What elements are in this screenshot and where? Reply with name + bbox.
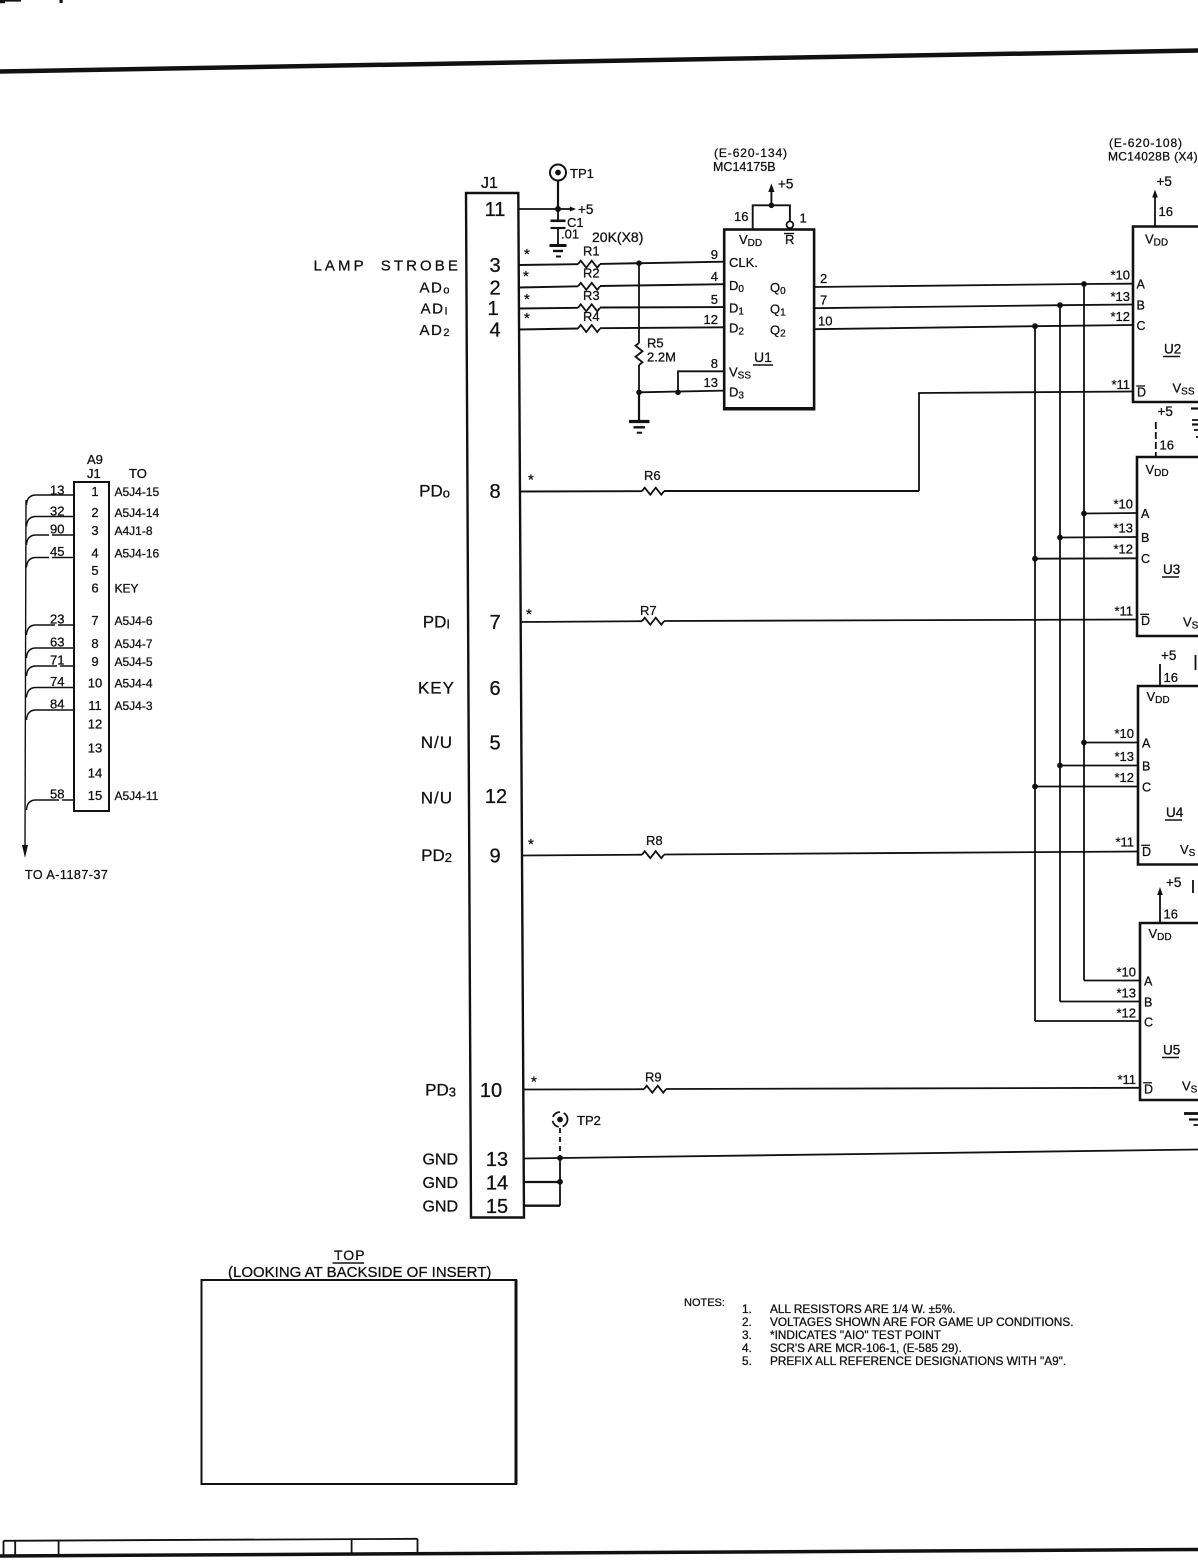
svg-text:(LOOKING AT BACKSIDE OF INSERT: (LOOKING AT BACKSIDE OF INSERT) bbox=[228, 1264, 491, 1281]
svg-text:3: 3 bbox=[489, 255, 500, 277]
svg-text:VSS: VSS bbox=[729, 365, 751, 382]
bus A vertical bbox=[1083, 284, 1085, 981]
wire bus C to U5 pin C bbox=[1035, 1020, 1140, 1022]
svg-text:2: 2 bbox=[820, 271, 827, 286]
svg-text:D2: D2 bbox=[729, 321, 744, 338]
svg-text:+5: +5 bbox=[1166, 875, 1181, 890]
svg-text:12: 12 bbox=[485, 786, 507, 808]
wire PD0 riser to U2 D pin bbox=[919, 392, 1133, 492]
hook wire row3 bbox=[27, 535, 75, 545]
junction R1/R5 on CLK net bbox=[636, 260, 642, 266]
svg-text:*13: *13 bbox=[1110, 289, 1130, 304]
svg-text:KEY: KEY bbox=[115, 582, 139, 596]
resistor R1 bbox=[519, 244, 724, 268]
connector J1 bbox=[466, 175, 524, 1218]
junction bus C / U4 bbox=[1032, 784, 1038, 790]
svg-text:71: 71 bbox=[50, 653, 64, 668]
wire bus B to U4 pin B bbox=[1060, 765, 1138, 767]
svg-text:A5J4-16: A5J4-16 bbox=[115, 547, 160, 561]
resistor R8 on PD2 net bbox=[522, 833, 1139, 858]
svg-text:J1: J1 bbox=[87, 466, 101, 481]
svg-text:*10: *10 bbox=[1110, 268, 1130, 283]
svg-text:11: 11 bbox=[88, 698, 102, 713]
svg-text:B: B bbox=[1141, 531, 1149, 545]
svg-text:1: 1 bbox=[800, 211, 807, 226]
svg-text:*: * bbox=[524, 310, 530, 327]
svg-text:R8: R8 bbox=[646, 833, 663, 848]
trunk arrowhead bbox=[22, 845, 28, 858]
resistor R9 on PD3 net bbox=[523, 1070, 1140, 1093]
svg-text:+5: +5 bbox=[1157, 174, 1172, 189]
svg-text:90: 90 bbox=[50, 522, 64, 537]
svg-text:PD2: PD2 bbox=[421, 846, 452, 865]
svg-text:VDD: VDD bbox=[1147, 689, 1170, 706]
svg-text:R6: R6 bbox=[644, 468, 661, 483]
IC U2 MC14028B bbox=[1110, 174, 1198, 402]
junction at TP1 bbox=[555, 206, 561, 212]
svg-text:GND: GND bbox=[422, 1199, 458, 1216]
svg-text:23: 23 bbox=[50, 612, 64, 627]
wire U1 Q1 to U2 pin B bbox=[814, 305, 1133, 309]
svg-text:*10: *10 bbox=[1113, 497, 1133, 512]
svg-text:VDD: VDD bbox=[739, 232, 762, 249]
svg-text:5: 5 bbox=[711, 292, 718, 307]
svg-text:7: 7 bbox=[91, 613, 98, 628]
svg-text:(E-620-134): (E-620-134) bbox=[714, 146, 788, 160]
svg-text:B: B bbox=[1137, 299, 1145, 313]
bus B vertical bbox=[1059, 305, 1061, 1001]
svg-text:A5J4-7: A5J4-7 bbox=[115, 637, 153, 651]
svg-text:U5: U5 bbox=[1163, 1043, 1180, 1058]
svg-text:*: * bbox=[528, 836, 534, 853]
hook wire row4 bbox=[27, 558, 75, 568]
svg-text:TP2: TP2 bbox=[577, 1113, 601, 1128]
hook wire row2 bbox=[27, 517, 75, 527]
svg-text:VS: VS bbox=[1182, 1079, 1198, 1096]
IC U1 MC14175B bbox=[713, 146, 815, 409]
svg-text:ADI: ADI bbox=[421, 301, 449, 318]
wire bus A to U3 pin A bbox=[1084, 512, 1137, 515]
svg-text:84: 84 bbox=[50, 697, 64, 712]
junction VSS/D3 bbox=[675, 390, 681, 396]
svg-text:10: 10 bbox=[88, 676, 102, 691]
ground below R5 bbox=[629, 392, 650, 432]
svg-text:TP1: TP1 bbox=[570, 166, 594, 181]
svg-text:*: * bbox=[524, 246, 530, 263]
resistor R5 bbox=[636, 263, 676, 392]
svg-text:R3: R3 bbox=[583, 288, 600, 303]
svg-text:A: A bbox=[1137, 278, 1146, 292]
test point TP1 bbox=[550, 165, 594, 208]
junction bus B / U4 bbox=[1057, 763, 1063, 769]
wire J1 pin 11 to +5 node bbox=[519, 208, 560, 210]
svg-text:A: A bbox=[1142, 737, 1151, 751]
IC U4 MC14028B bbox=[1114, 648, 1198, 865]
svg-text:D1: D1 bbox=[729, 301, 744, 318]
wire bus A to U5 pin A bbox=[1084, 980, 1140, 982]
svg-text:4: 4 bbox=[711, 269, 718, 284]
svg-text:*INDICATES "AIO" TEST POINT: *INDICATES "AIO" TEST POINT bbox=[770, 1328, 941, 1342]
svg-text:ALL RESISTORS ARE 1/4 W. ±5%.: ALL RESISTORS ARE 1/4 W. ±5%. bbox=[770, 1302, 955, 1316]
svg-text:*12: *12 bbox=[1116, 1006, 1136, 1021]
svg-text:6: 6 bbox=[489, 678, 500, 700]
wire bus B to U5 pin B bbox=[1060, 1001, 1140, 1003]
svg-text:+5: +5 bbox=[1161, 648, 1176, 663]
junction bus A / U4 bbox=[1081, 740, 1087, 746]
wire bus A to U4 pin A bbox=[1084, 742, 1138, 744]
notes block bbox=[684, 1297, 1073, 1368]
svg-text:12: 12 bbox=[704, 312, 718, 327]
svg-text:A5J4-14: A5J4-14 bbox=[115, 506, 160, 520]
hook wire row7 bbox=[27, 625, 75, 635]
junction bus B / U3 bbox=[1057, 535, 1063, 541]
svg-text:14: 14 bbox=[88, 766, 102, 781]
resistor R4 bbox=[519, 309, 724, 332]
svg-text:A5J4-6: A5J4-6 bbox=[115, 614, 153, 628]
U1 VDD/reset bracket to +5 bbox=[734, 177, 807, 230]
junction GND pin14 bbox=[557, 1179, 563, 1185]
harness trunk wire bbox=[25, 500, 26, 846]
svg-text:C: C bbox=[1141, 552, 1150, 566]
svg-text:D: D bbox=[1141, 614, 1150, 628]
wire GND pin14 bbox=[524, 1181, 560, 1183]
svg-text:5.: 5. bbox=[742, 1354, 752, 1368]
bus C vertical bbox=[1034, 326, 1036, 1021]
svg-text:*13: *13 bbox=[1116, 986, 1136, 1001]
svg-text:15: 15 bbox=[88, 788, 102, 803]
svg-text:74: 74 bbox=[50, 674, 64, 689]
svg-text:GND: GND bbox=[422, 1152, 458, 1169]
svg-text:VDD: VDD bbox=[1146, 462, 1169, 479]
svg-text:Q2: Q2 bbox=[770, 323, 786, 340]
svg-text:MC14028B (X4): MC14028B (X4) bbox=[1108, 150, 1198, 164]
svg-text:KEY: KEY bbox=[418, 679, 455, 698]
resistor R6 on PD0 net bbox=[520, 468, 919, 495]
svg-text:U1: U1 bbox=[754, 349, 772, 365]
wire U1 VSS pin 8 bbox=[678, 371, 724, 392]
title block boxes bbox=[4, 1539, 418, 1556]
svg-text:*: * bbox=[526, 606, 532, 623]
svg-text:58: 58 bbox=[50, 787, 64, 802]
svg-text:16: 16 bbox=[1164, 907, 1178, 922]
wire bus C to U4 pin C bbox=[1035, 786, 1138, 788]
svg-text:VSS: VSS bbox=[1173, 381, 1195, 398]
svg-text:LAMP STROBE: LAMP STROBE bbox=[313, 258, 461, 275]
svg-text:*12: *12 bbox=[1113, 542, 1133, 557]
IC U5 MC14028B bbox=[1116, 875, 1198, 1100]
wire U1 Q0 to U2 pin A bbox=[814, 284, 1133, 287]
svg-text:PDI: PDI bbox=[423, 613, 450, 632]
svg-text:D: D bbox=[1137, 386, 1146, 400]
svg-text:A5J4-11: A5J4-11 bbox=[115, 789, 159, 803]
svg-text:PD3: PD3 bbox=[425, 1081, 456, 1100]
junction Q2/bus C bbox=[1032, 323, 1038, 329]
svg-text:VOLTAGES SHOWN ARE FOR GAME UP: VOLTAGES SHOWN ARE FOR GAME UP CONDITION… bbox=[770, 1315, 1073, 1329]
svg-text:45: 45 bbox=[50, 544, 64, 559]
svg-text:R7: R7 bbox=[640, 603, 657, 618]
svg-text:SCR'S ARE MCR-106-1, (E-585 29: SCR'S ARE MCR-106-1, (E-585 29). bbox=[770, 1341, 962, 1355]
capacitor C1 bbox=[551, 209, 584, 244]
ground below C1 bbox=[550, 246, 567, 257]
svg-text:63: 63 bbox=[50, 635, 64, 650]
junction GND/TP2 bbox=[557, 1155, 563, 1161]
svg-text:Q0: Q0 bbox=[770, 280, 786, 297]
svg-text:2.2M: 2.2M bbox=[647, 350, 676, 365]
svg-text:NOTES:: NOTES: bbox=[684, 1297, 725, 1309]
svg-text:VS: VS bbox=[1183, 615, 1198, 632]
svg-text:16: 16 bbox=[1160, 438, 1174, 453]
svg-text:C: C bbox=[1137, 319, 1146, 333]
svg-text:4.: 4. bbox=[742, 1341, 752, 1355]
svg-text:11: 11 bbox=[485, 199, 506, 221]
resistor R7 on PD1 net bbox=[521, 603, 1138, 625]
svg-text:+5: +5 bbox=[1158, 404, 1173, 419]
svg-text:R1: R1 bbox=[583, 244, 600, 259]
resistor R2 bbox=[519, 266, 724, 290]
svg-text:9: 9 bbox=[711, 247, 718, 262]
wire U1 Q2 to U2 pin C bbox=[814, 325, 1133, 329]
svg-text:*10: *10 bbox=[1114, 726, 1134, 741]
svg-text:*10: *10 bbox=[1116, 965, 1136, 980]
svg-text:16: 16 bbox=[1159, 204, 1173, 219]
svg-text:U4: U4 bbox=[1166, 805, 1184, 820]
wire GND vertical tie bbox=[559, 1158, 561, 1206]
svg-text:AD2: AD2 bbox=[420, 322, 451, 339]
svg-text:4: 4 bbox=[91, 546, 98, 561]
svg-text:*11: *11 bbox=[1117, 1072, 1136, 1087]
svg-text:20K(X8): 20K(X8) bbox=[592, 229, 643, 245]
wire bus C to U3 pin C bbox=[1035, 557, 1137, 559]
svg-text:N/U: N/U bbox=[421, 733, 453, 752]
svg-text:TO: TO bbox=[129, 466, 147, 481]
svg-text:A5J4-4: A5J4-4 bbox=[115, 677, 153, 691]
svg-text:D: D bbox=[1144, 1083, 1153, 1097]
svg-text:D: D bbox=[1142, 845, 1151, 859]
IC U3 MC14028B bbox=[1113, 404, 1198, 636]
svg-text:*12: *12 bbox=[1114, 770, 1134, 785]
svg-text:7: 7 bbox=[489, 612, 500, 634]
svg-text:A4J1-8: A4J1-8 bbox=[115, 524, 153, 538]
svg-text:GND: GND bbox=[422, 1175, 458, 1192]
svg-text:D0: D0 bbox=[729, 278, 744, 295]
insert drawing TOP bbox=[202, 1247, 517, 1484]
svg-text:MC14175B: MC14175B bbox=[713, 160, 776, 174]
svg-text:ADo: ADo bbox=[420, 280, 451, 297]
+5 power stub arrow bbox=[560, 202, 593, 217]
svg-text:14: 14 bbox=[486, 1173, 508, 1195]
hook wire row10 bbox=[27, 688, 75, 698]
svg-text:2: 2 bbox=[91, 505, 98, 520]
svg-text:10: 10 bbox=[480, 1080, 502, 1102]
svg-text:U2: U2 bbox=[1164, 342, 1181, 357]
wire GND pin13 long run bbox=[524, 1150, 1198, 1159]
ground fragment below U5 bbox=[1184, 1114, 1198, 1126]
svg-text:PDo: PDo bbox=[419, 482, 450, 501]
svg-text:A5J4-15: A5J4-15 bbox=[115, 485, 160, 499]
junction bus A / U3 bbox=[1081, 511, 1087, 517]
wire U1 D3 pin 13 bbox=[639, 391, 724, 393]
svg-text:*13: *13 bbox=[1113, 521, 1133, 536]
junction Q1/bus B bbox=[1057, 302, 1063, 308]
svg-text:9: 9 bbox=[489, 846, 500, 868]
svg-text:CLK.: CLK. bbox=[729, 255, 758, 270]
svg-text:13: 13 bbox=[486, 1149, 508, 1171]
hook wire row8 bbox=[27, 648, 75, 658]
svg-text:R4: R4 bbox=[583, 309, 600, 324]
svg-text:TOP: TOP bbox=[334, 1247, 366, 1263]
bypass cap fragment right of U2 bbox=[1191, 409, 1198, 438]
junction R5/D3 ground net bbox=[636, 390, 642, 396]
svg-text:1: 1 bbox=[487, 298, 498, 320]
svg-text:*11: *11 bbox=[1115, 835, 1134, 850]
svg-text:5: 5 bbox=[91, 563, 98, 578]
svg-text:5: 5 bbox=[489, 733, 500, 755]
hook wire row9 bbox=[27, 666, 75, 676]
svg-text:*12: *12 bbox=[1110, 309, 1130, 324]
svg-text:D3: D3 bbox=[729, 385, 744, 402]
wire GND pin15 bbox=[524, 1204, 560, 1206]
svg-text:*13: *13 bbox=[1114, 749, 1134, 764]
svg-text:13: 13 bbox=[704, 375, 718, 390]
svg-text:R2: R2 bbox=[583, 266, 600, 281]
svg-text:VDD: VDD bbox=[1149, 926, 1172, 943]
svg-text:16: 16 bbox=[1164, 670, 1178, 685]
svg-text:2.: 2. bbox=[742, 1315, 752, 1329]
svg-text:(E-620-108): (E-620-108) bbox=[1109, 136, 1183, 150]
svg-text:B: B bbox=[1144, 996, 1152, 1010]
svg-text:8: 8 bbox=[489, 481, 500, 503]
svg-text:*11: *11 bbox=[1114, 604, 1133, 619]
svg-text:A: A bbox=[1141, 507, 1150, 521]
svg-text:3.: 3. bbox=[742, 1328, 752, 1342]
corner registration mark bbox=[0, 0, 63, 3]
svg-text:1.: 1. bbox=[742, 1302, 752, 1316]
bottom border line bbox=[0, 1550, 1198, 1557]
svg-text:12: 12 bbox=[88, 717, 102, 732]
svg-text:9: 9 bbox=[91, 654, 98, 669]
pinout table A9 J1 bbox=[74, 452, 147, 811]
svg-text:C: C bbox=[1142, 781, 1151, 795]
svg-text:VS: VS bbox=[1180, 842, 1196, 859]
svg-text:N/U: N/U bbox=[421, 789, 453, 808]
svg-text:A5J4-3: A5J4-3 bbox=[115, 699, 153, 713]
svg-text:*: * bbox=[528, 472, 534, 489]
hook wire row15 bbox=[27, 800, 75, 810]
svg-text:*: * bbox=[524, 291, 530, 308]
svg-text:U3: U3 bbox=[1163, 562, 1180, 577]
bypass cap fragment right of U3 top bbox=[1192, 419, 1198, 421]
svg-text:1: 1 bbox=[91, 484, 98, 499]
wire bus B to U3 pin B bbox=[1060, 536, 1137, 539]
svg-text:8: 8 bbox=[91, 636, 98, 651]
resistor R3 bbox=[519, 288, 724, 311]
svg-text:.01: .01 bbox=[561, 227, 579, 242]
svg-text:VDD: VDD bbox=[1145, 232, 1168, 249]
svg-text:Q1: Q1 bbox=[770, 302, 786, 319]
svg-text:J1: J1 bbox=[481, 175, 498, 192]
svg-text:3: 3 bbox=[91, 523, 98, 538]
svg-text:R: R bbox=[785, 232, 794, 247]
svg-text:PREFIX ALL REFERENCE DESIGNATI: PREFIX ALL REFERENCE DESIGNATIONS WITH "… bbox=[770, 1354, 1066, 1368]
junction Q0/bus A bbox=[1081, 281, 1087, 287]
hook wire row11 bbox=[27, 710, 75, 720]
svg-text:4: 4 bbox=[489, 320, 500, 342]
svg-text:C: C bbox=[1144, 1016, 1153, 1030]
svg-text:*11: *11 bbox=[1111, 377, 1130, 392]
hook wire row1 bbox=[27, 495, 75, 505]
svg-text:TO A-1187-37: TO A-1187-37 bbox=[25, 868, 108, 882]
svg-text:2: 2 bbox=[489, 278, 500, 300]
svg-text:R5: R5 bbox=[647, 336, 664, 351]
svg-text:R9: R9 bbox=[645, 1070, 662, 1085]
top border line bbox=[0, 51, 1198, 72]
svg-text:B: B bbox=[1142, 760, 1150, 774]
svg-text:+5: +5 bbox=[778, 177, 793, 192]
svg-text:16: 16 bbox=[734, 209, 748, 224]
junction bus C / U3 bbox=[1032, 556, 1038, 562]
svg-text:A5J4-5: A5J4-5 bbox=[115, 655, 153, 669]
svg-text:A9: A9 bbox=[87, 452, 103, 467]
svg-text:7: 7 bbox=[820, 293, 827, 308]
svg-text:15: 15 bbox=[486, 1196, 508, 1218]
svg-text:13: 13 bbox=[88, 741, 102, 756]
svg-text:8: 8 bbox=[711, 356, 718, 371]
part number label for U2-U5 bbox=[1108, 136, 1198, 164]
test point TP2 bbox=[553, 1112, 601, 1157]
svg-text:10: 10 bbox=[818, 314, 832, 329]
svg-text:*: * bbox=[531, 1074, 537, 1091]
svg-text:*: * bbox=[523, 268, 529, 285]
svg-text:6: 6 bbox=[91, 581, 98, 596]
svg-text:A: A bbox=[1144, 975, 1153, 989]
